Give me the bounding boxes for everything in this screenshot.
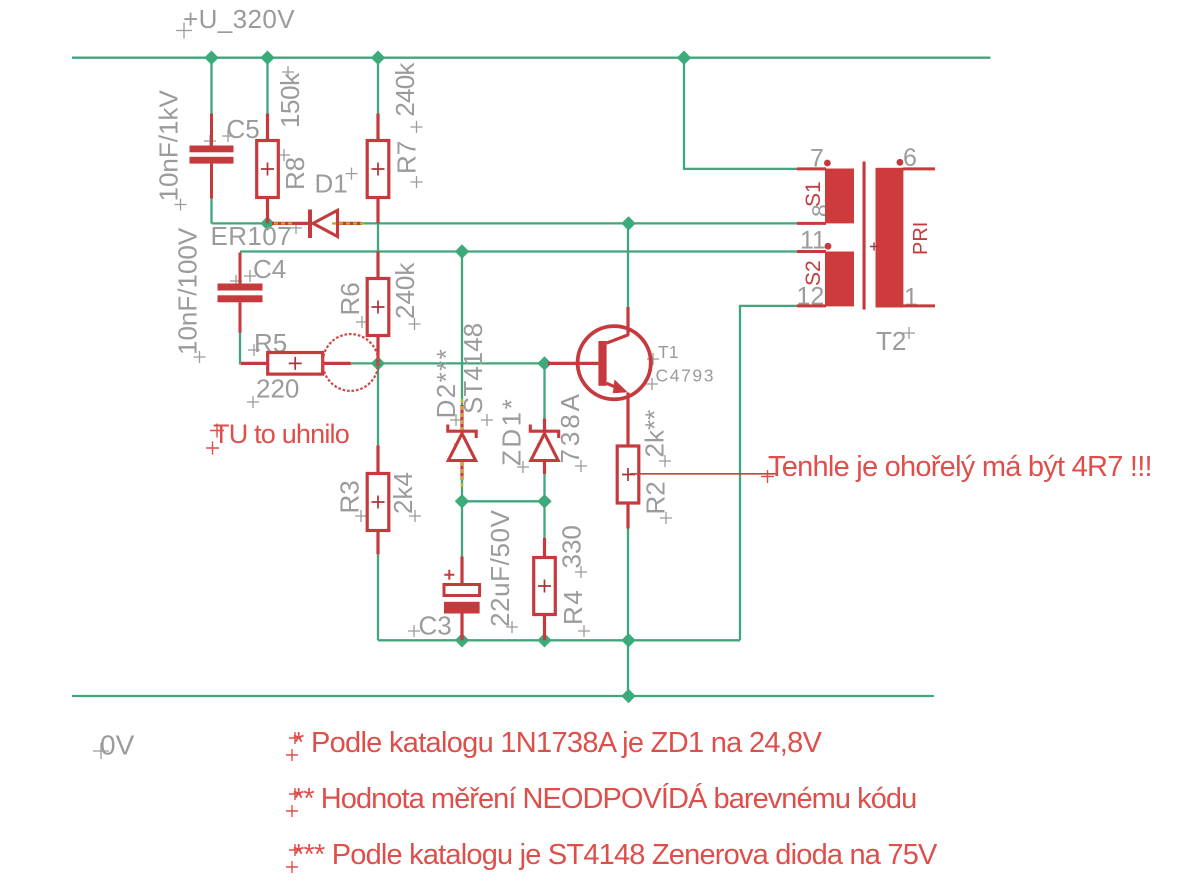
svg-text:C5: C5 [227,114,260,144]
resistor R4 origin cross [538,580,551,593]
wire junction to R3 top [377,363,379,445]
svg-text:150k: 150k [275,72,305,128]
capacitor C3 22uF/50V electrolytic [444,557,480,641]
junction top rail at R8 [260,51,274,65]
T2 pin 12 stub [797,304,826,307]
cross 2k4 [409,510,421,522]
red origin crosses [206,424,774,874]
wire rail2 C4 to pin 11 [240,250,797,252]
cross D1 label [346,168,358,180]
svg-text:R3: R3 [335,480,365,513]
wire C5 top drop [210,58,212,114]
cross 22uF/50V [506,621,518,633]
junction base wire at ZD1 [537,356,551,370]
wire D1 rail left segment [212,222,286,224]
junction zener bottoms at D2 [455,494,469,508]
cross C3 [408,625,420,637]
wire net 0V bottom rail [72,695,934,697]
svg-text:330: 330 [557,525,587,568]
cross R3 [355,510,367,522]
cross 738A [575,460,587,472]
svg-text:R6: R6 [335,282,365,315]
capacitor C3 plus mark [444,570,454,580]
svg-text:S2: S2 [802,260,825,286]
transformer T2 [797,159,935,310]
T2 winding PRI [876,168,904,308]
capacitor C4 10nF/100V [239,253,242,333]
gray origin crosses [93,23,915,760]
wire R7-R6 link between rails [377,223,379,251]
T2 origin cross [870,242,878,250]
cross TU text 2 [206,442,219,455]
svg-text:* Podle katalogu 1N1738A je ZD: * Podle katalogu 1N1738A je ZD1 na 24,8V [293,727,823,759]
wire bottom rail to 0V rail [627,640,629,696]
junction bottom rail at R4 [537,633,551,647]
junction D1 rail at R8 [260,216,274,230]
zener diode ZD1 738A [530,418,558,474]
svg-text:240k: 240k [390,262,420,319]
resistor R7 origin cross [372,163,385,176]
wire transformer pin12 riser [740,306,797,640]
cross R6 [356,316,368,328]
annotation circle TU to uhnilo (burn spot) [323,334,379,391]
T2 winding S2 [825,252,854,307]
svg-text:10nF/1kV: 10nF/1kV [154,90,184,202]
capacitor C5 10nF/1kV [210,114,213,199]
svg-text:10nF/100V: 10nF/100V [173,227,203,355]
cross R8 [278,149,290,161]
cross 330 [575,566,587,578]
wire D2-ZD1 bottom link [462,500,545,502]
svg-text:738A: 738A [555,391,585,463]
cross note 3b [286,861,298,873]
svg-text:220: 220 [256,374,299,404]
T2 pin 1 stub [903,304,935,307]
svg-text:TU to uhnilo: TU to uhnilo [213,419,349,449]
wire R4 top [543,501,545,538]
cross 150k [282,66,294,78]
wire R7 top drop [377,58,379,114]
cross D2 label [450,414,462,426]
cross note 1a [289,732,301,744]
wire C3 top [461,501,463,556]
resistor R3 2k4 [367,446,389,555]
junction rail2 at D2 [455,244,469,258]
T2 core line [863,162,866,310]
wire R8 top drop [266,58,268,114]
svg-text:R4: R4 [558,589,588,625]
cross C5 part [204,135,216,147]
T2 pin 8 stub [797,222,826,225]
resistor R2 origin cross [622,468,635,481]
cross 0V [93,743,109,759]
cross 2k** [659,455,671,467]
svg-text:R2: R2 [641,481,671,514]
wire bottom rail y640 [378,639,740,641]
wire C4 bottom to R5 [240,333,244,364]
T2 pin 6 polarity dot [897,159,904,166]
zener D2 highlight dashes [461,399,463,490]
wire R5 to base junctions [351,362,548,364]
wire ZD1 column from base junction [543,363,545,418]
cross note 1b [286,749,298,761]
svg-text:0V: 0V [100,730,135,761]
svg-text:T1: T1 [658,342,678,362]
wire net +U_320V top rail [72,57,990,59]
resistor R2 2k (burnt, should be 4R7) [617,393,639,529]
cross note 2a [289,788,301,800]
resistor R5 220 (horizontal) [241,353,351,375]
cross C4 part [230,275,242,287]
resistor R7 240k [367,114,389,224]
svg-text:C4793: C4793 [656,366,716,386]
T2 pin 7 polarity dot [824,160,831,167]
wire ZD1 bottom [543,474,545,501]
wire R2 bottom [627,529,629,641]
cross C4793 [646,378,658,390]
T2 pin 6 stub [903,167,935,170]
svg-text:2k**: 2k** [640,410,670,458]
svg-text:ZD1*: ZD1* [497,397,527,466]
cross C4 [244,270,256,282]
svg-text:D2***: D2*** [431,348,461,419]
junction top rail at R7 [371,51,385,65]
wire C5 bottom to D1 rail [210,166,212,224]
T2 pin 11 stub [797,250,826,253]
cross ER107 [290,222,302,234]
wire R3 bottom to bottom rail [377,554,379,640]
cross note 2b [286,805,298,817]
svg-text:Tenhle je ohořelý má být 4R7 !: Tenhle je ohořelý má být 4R7 !!! [768,451,1152,483]
cross 240k R7 [411,121,423,133]
svg-text:C4: C4 [253,254,286,284]
svg-text:ER107: ER107 [211,221,293,251]
cross 220 [247,396,259,408]
cross T2 [903,327,915,339]
resistor R8 origin cross [261,163,274,176]
svg-text:S1: S1 [802,181,825,207]
cross T1 [647,353,659,365]
cross 10nF/100V [194,351,206,363]
resistor R6 origin cross [372,301,385,314]
cross C5 [222,130,234,142]
junction D1 rail at collector [621,216,635,230]
cross ZD1 part [537,438,549,450]
svg-text:D1: D1 [315,169,348,199]
svg-text:22uF/50V: 22uF/50V [485,509,515,627]
leader line from R2 to note [630,473,776,475]
junction bottom rail at C3 [455,633,469,647]
wire D2 column from rail2 [461,252,463,418]
wire transformer pin7 drop from top rail [684,58,797,169]
cross R7 [411,176,423,188]
T2 pin 11 polarity dot [825,243,832,250]
cross +U_320V [176,23,192,39]
cross D1 part [318,218,330,230]
cross ZD1 label [517,461,529,473]
junction base wire at R6/R3 [371,356,385,370]
cross R5 [248,344,260,356]
cross TU text 1 [210,424,224,438]
wire D1 rail right segment to pin 8 [362,222,797,224]
wire D2 bottom [461,474,463,501]
svg-text:*** Podle katalogu je ST4148 Z: *** Podle katalogu je ST4148 Zenerova di… [293,839,938,871]
svg-text:C3: C3 [419,611,452,641]
cross R2 [660,512,672,524]
resistor R5 origin cross [289,357,302,370]
T2 pin 7 stub [797,167,826,170]
diode D1 highlight dashes [274,222,366,224]
wire T1 collector to D1 rail [627,223,629,307]
cross 240k R6 [409,318,421,330]
cross D2 part [454,438,466,450]
resistor R8 150k [257,114,279,224]
cross note 3a [289,844,301,856]
zener diode D2 ST4148 [448,405,476,480]
resistor R3 origin cross [372,496,385,509]
svg-text:+U_320V: +U_320V [183,4,295,34]
resistor R4 330 [534,538,556,640]
junction top rail at T2 drop [677,51,691,65]
junction zener bottoms at ZD1 [537,494,551,508]
svg-text:PRI: PRI [910,222,932,255]
svg-text:2k4: 2k4 [388,472,418,514]
resistor R6 240k [367,252,389,367]
svg-text:T2: T2 [876,326,906,356]
svg-text:240k: 240k [390,62,420,117]
junction bottom rail at R2 [621,633,635,647]
T2 winding S1 [825,169,854,224]
diode D1 ER107 [272,210,362,239]
svg-text:R8: R8 [280,157,310,190]
transistor T1 C4793 [548,307,651,399]
wire R6 bottom stub [377,360,379,363]
cross R4 [578,625,590,637]
junction 0V rail at R2 column [621,689,635,703]
cross 10nF/1kV [175,199,187,211]
svg-text:** Hodnota měření NEODPOVÍDÁ b: ** Hodnota měření NEODPOVÍDÁ barevnému k… [293,782,916,815]
cross Tenhle text [761,470,774,483]
junction top rail at C5 [204,51,218,65]
cross ST4148 [481,414,493,426]
svg-text:R7: R7 [392,141,422,174]
